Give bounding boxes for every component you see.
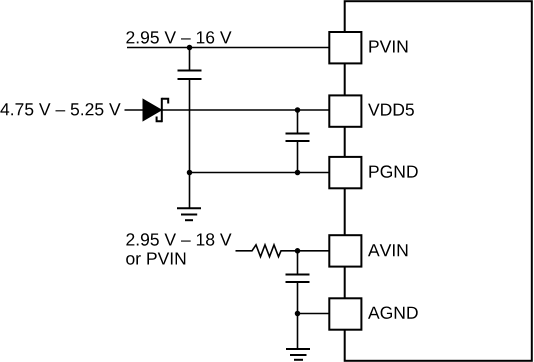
capacitor C3 xyxy=(286,275,310,283)
label 4.75 V – 5.25 V xyxy=(0,103,120,115)
wire AGND rail xyxy=(298,313,331,315)
node junction D (PGND rail / C2) xyxy=(295,170,301,176)
wire C3 top lead xyxy=(297,251,299,275)
wire PGND rail xyxy=(190,172,331,174)
ground 2 xyxy=(286,349,310,360)
wire C2 bottom lead xyxy=(297,141,299,173)
pin AGND xyxy=(329,298,361,329)
wire + resistor R1 into AVIN xyxy=(236,245,331,257)
IC U1 outline xyxy=(345,1,532,361)
wire C3 bottom lead to AGND rail xyxy=(297,282,299,314)
pin VDD5 xyxy=(329,95,361,126)
node junction A (top rail / C1) xyxy=(187,45,193,51)
node junction E (AVIN rail / C3) xyxy=(295,248,301,254)
wire VDD5 rail xyxy=(162,109,330,111)
pin label PGND xyxy=(369,165,417,177)
wire C1 top lead xyxy=(189,48,191,71)
wire down to ground 1 xyxy=(189,173,191,209)
wire down to ground 2 xyxy=(297,314,299,350)
pin label PVIN xyxy=(369,41,407,53)
wire C1 bottom lead down to PGND rail xyxy=(189,79,191,173)
node junction C (PGND rail / C1) xyxy=(187,170,193,176)
label 2.95 V – 16 V xyxy=(126,31,231,43)
label 2.95 V – 18 V / or PVIN xyxy=(126,233,231,264)
pin PGND xyxy=(329,157,361,188)
pin label AVIN xyxy=(368,244,407,256)
node junction B (VDD5 rail / C2) xyxy=(295,107,301,113)
pin label VDD5 xyxy=(368,104,414,116)
capacitor C2 xyxy=(286,134,310,142)
node junction F (AGND rail / C3) xyxy=(295,311,301,317)
wire into diode anode xyxy=(125,109,144,111)
diode D1 (Schottky) xyxy=(143,98,168,122)
wire top rail 2.95V-16V to PVIN xyxy=(127,47,330,49)
pin label AGND xyxy=(368,307,418,319)
wire C2 top lead xyxy=(297,110,299,134)
capacitor C1 xyxy=(178,71,202,80)
pin AVIN xyxy=(329,235,361,266)
pin PVIN xyxy=(329,32,361,63)
ground 1 xyxy=(177,208,201,220)
